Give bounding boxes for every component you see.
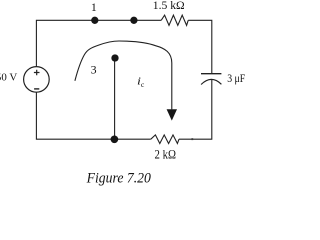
svg-text:c: c <box>141 80 145 89</box>
svg-text:50 V: 50 V <box>0 72 17 84</box>
svg-text:3: 3 <box>91 62 97 76</box>
svg-text:3 μF: 3 μF <box>227 71 245 85</box>
svg-text:2 kΩ: 2 kΩ <box>155 147 177 161</box>
svg-text:1.5 kΩ: 1.5 kΩ <box>153 0 185 12</box>
svg-text:Figure 7.20: Figure 7.20 <box>86 170 152 186</box>
svg-text:1: 1 <box>91 0 97 14</box>
